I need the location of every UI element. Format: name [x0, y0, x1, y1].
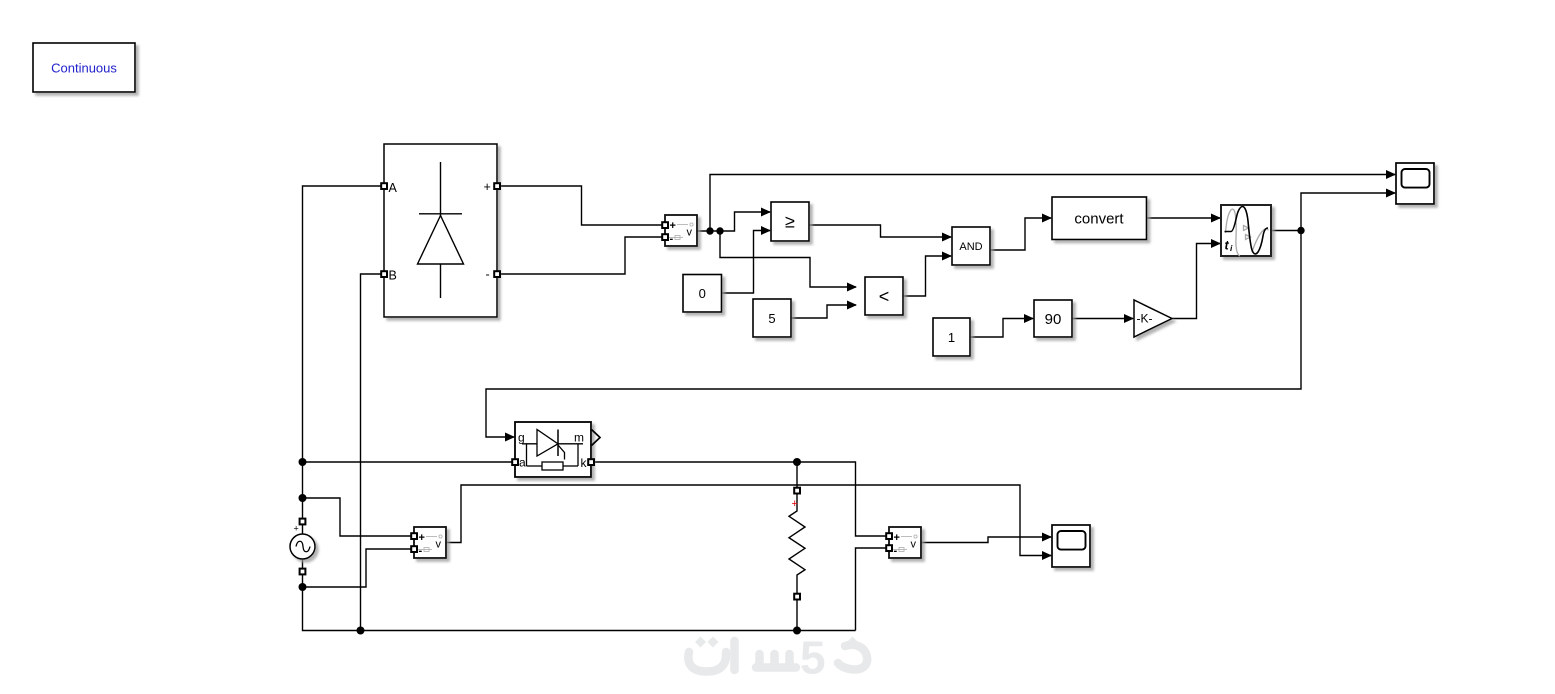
- svg-text:-K-: -K-: [1137, 312, 1153, 326]
- svg-text:B: B: [389, 269, 397, 283]
- svg-text:Continuous: Continuous: [51, 61, 117, 76]
- svg-text:g: g: [518, 431, 525, 445]
- svg-text:1: 1: [948, 330, 955, 345]
- svg-text:≥: ≥: [785, 212, 795, 232]
- svg-text:-: -: [419, 545, 423, 557]
- svg-text:AND: AND: [959, 241, 982, 253]
- svg-text:+: +: [670, 220, 676, 232]
- svg-text:90: 90: [1045, 311, 1062, 328]
- svg-text:+: +: [419, 532, 425, 544]
- svg-text:+: +: [894, 532, 900, 544]
- svg-text:A: A: [389, 181, 398, 195]
- svg-text:0: 0: [699, 286, 706, 301]
- svg-text:+: +: [792, 498, 798, 510]
- svg-text:<: <: [879, 287, 890, 307]
- svg-text:m: m: [574, 431, 584, 445]
- svg-text:v: v: [911, 539, 917, 551]
- svg-text:v: v: [687, 227, 693, 239]
- svg-text:+: +: [294, 524, 299, 534]
- svg-text:a: a: [519, 456, 526, 470]
- svg-text:5: 5: [768, 311, 775, 326]
- svg-text:+: +: [484, 180, 491, 194]
- svg-text:convert: convert: [1074, 211, 1124, 228]
- svg-text:5: 5: [800, 632, 826, 684]
- svg-text:v: v: [436, 539, 442, 551]
- svg-text:-: -: [670, 233, 674, 245]
- svg-text:k: k: [581, 456, 588, 470]
- svg-text:-: -: [894, 545, 898, 557]
- svg-text:-: -: [486, 268, 490, 282]
